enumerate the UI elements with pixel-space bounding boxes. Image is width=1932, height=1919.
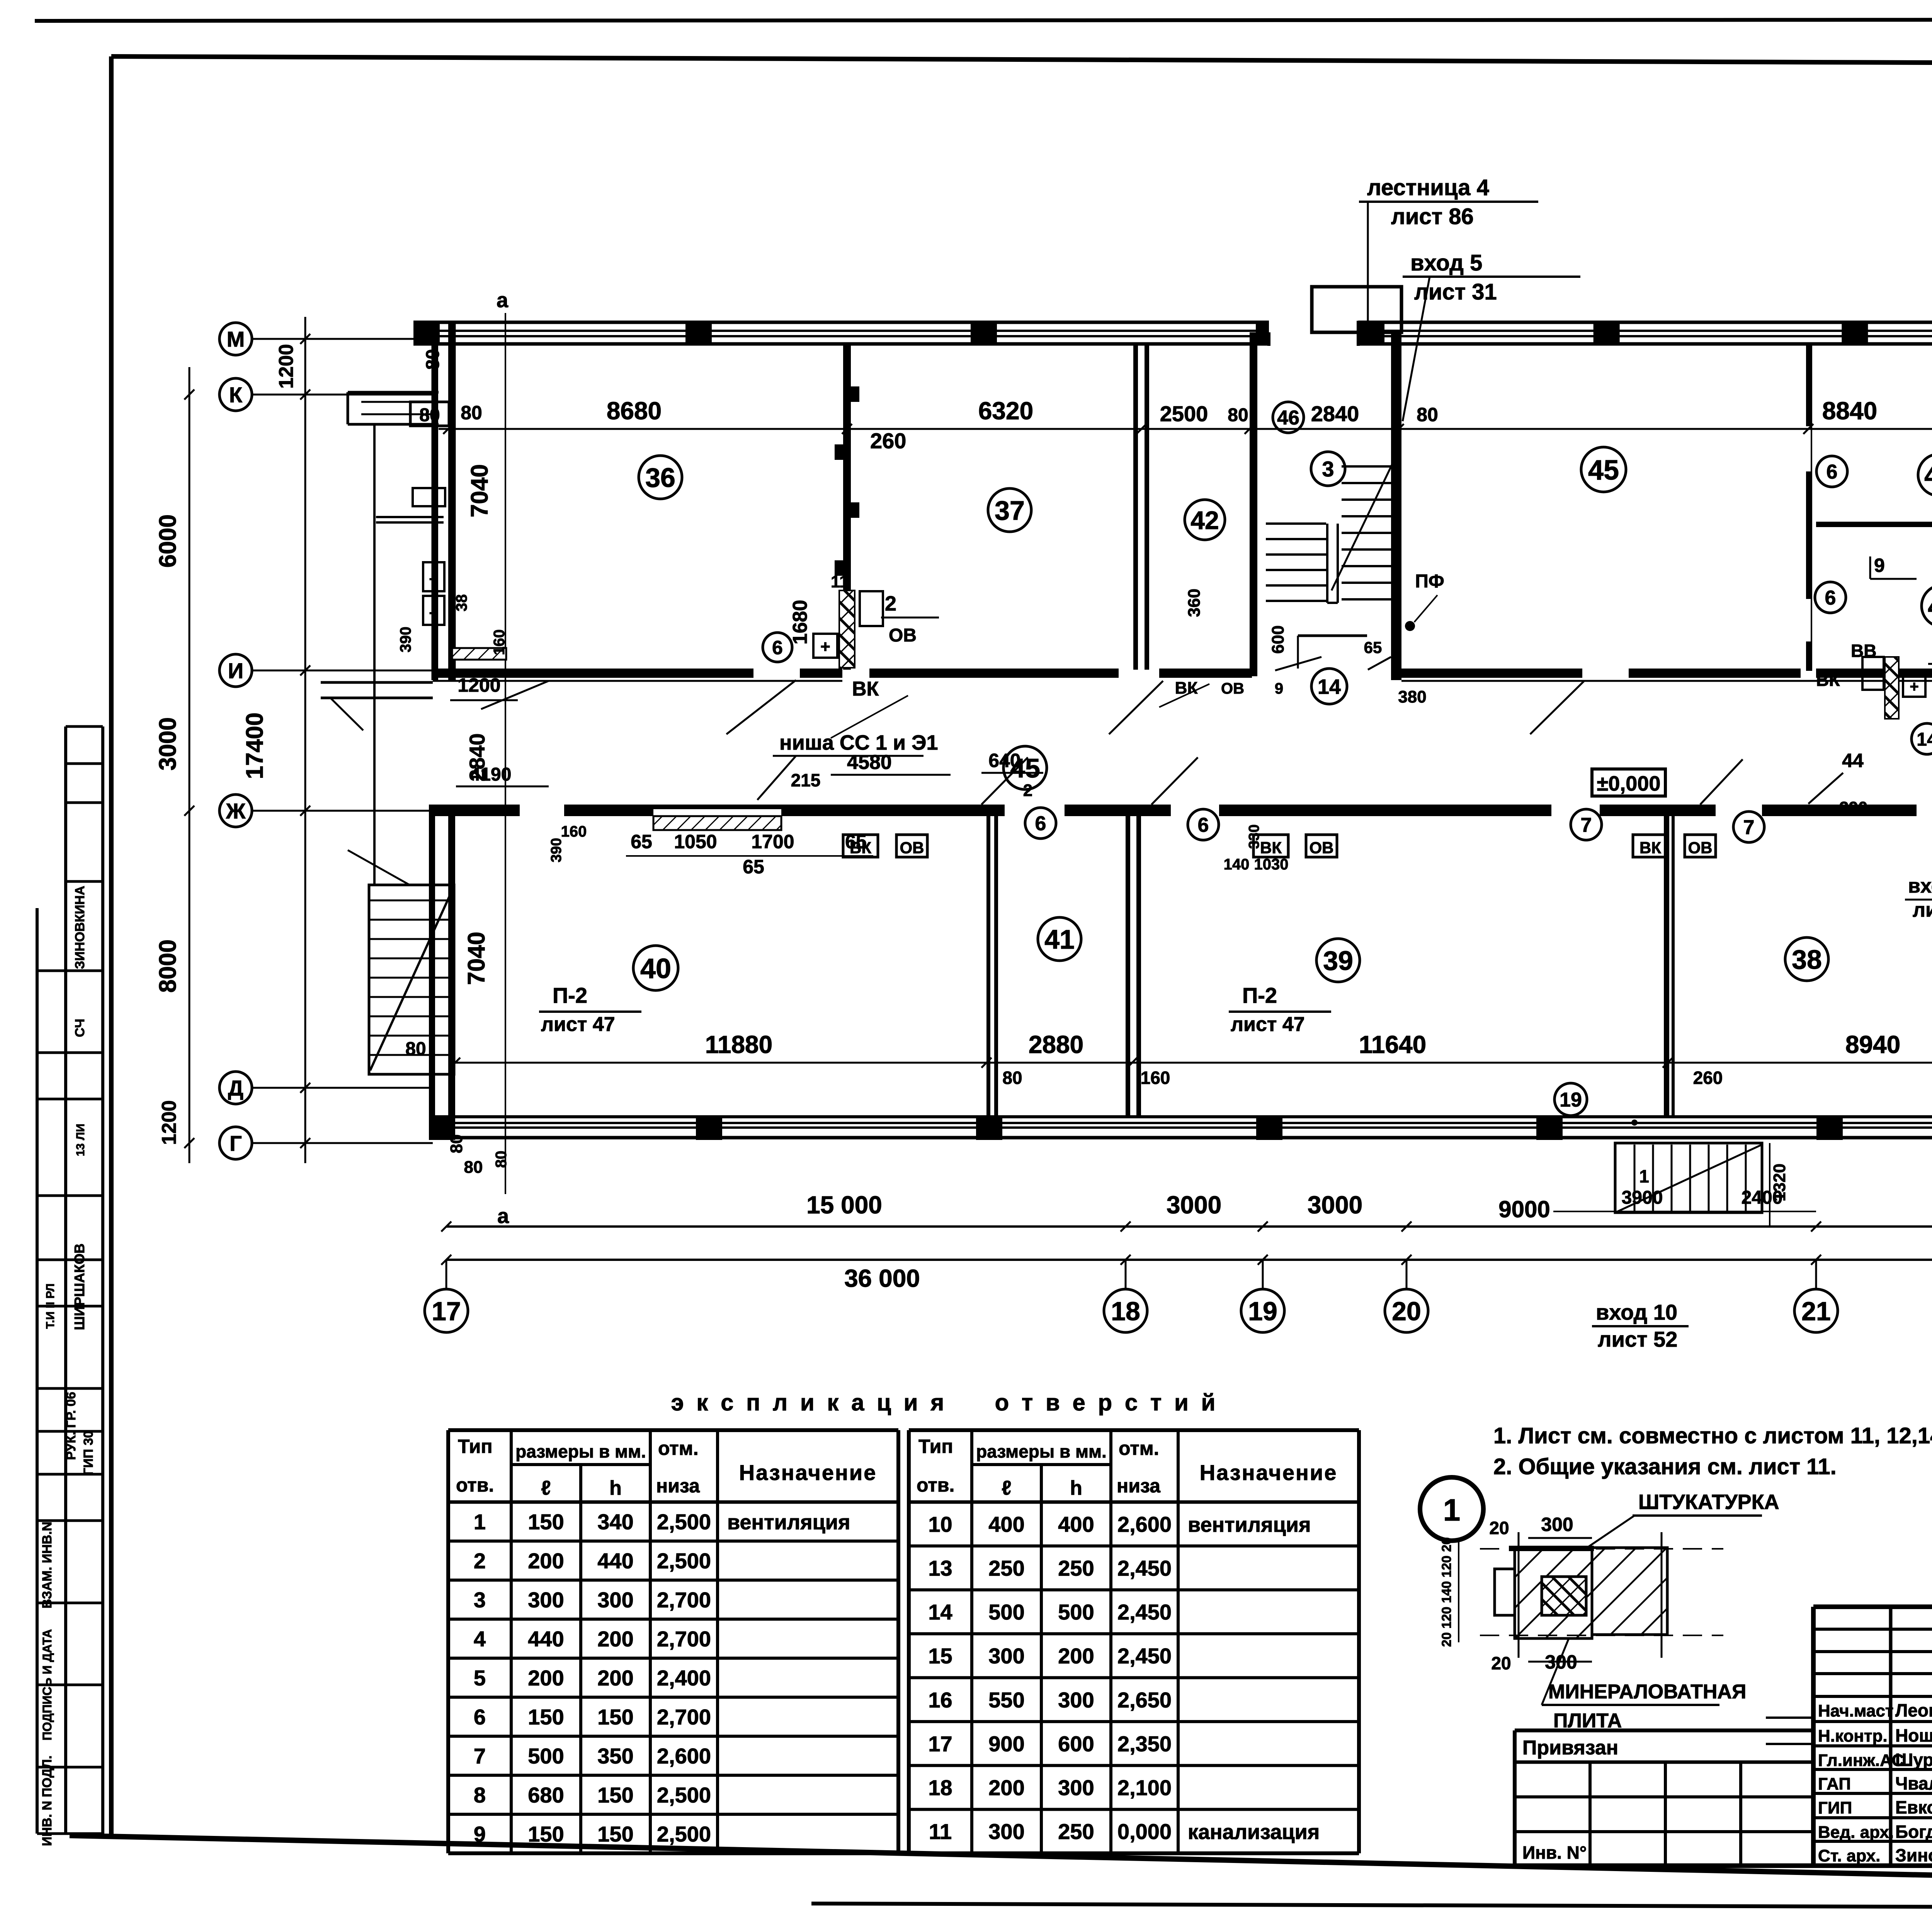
svg-text:11880: 11880 <box>705 1031 772 1058</box>
svg-text:+: + <box>429 571 438 588</box>
svg-text:20: 20 <box>1392 1296 1421 1326</box>
svg-text:680: 680 <box>528 1783 564 1807</box>
svg-text:лист 52: лист 52 <box>1598 1327 1677 1351</box>
svg-text:13: 13 <box>928 1556 952 1580</box>
svg-text:Шурмухина: Шурмухина <box>1895 1750 1932 1770</box>
svg-text:РУК. ГР. 06: РУК. ГР. 06 <box>64 1392 78 1460</box>
svg-text:2,450: 2,450 <box>1117 1644 1172 1668</box>
svg-text:2880: 2880 <box>1029 1031 1083 1058</box>
svg-text:150: 150 <box>528 1510 564 1534</box>
svg-text:вход 8I1: вход 8I1 <box>1908 875 1932 897</box>
svg-text:18: 18 <box>928 1776 952 1800</box>
svg-text:37: 37 <box>995 495 1025 526</box>
svg-text:340: 340 <box>597 1510 633 1534</box>
svg-text:17400: 17400 <box>241 713 268 779</box>
svg-text:215: 215 <box>791 770 821 790</box>
svg-text:150: 150 <box>528 1705 564 1729</box>
svg-text:150: 150 <box>597 1783 633 1807</box>
svg-text:ГИП: ГИП <box>1818 1798 1852 1817</box>
svg-text:6: 6 <box>1035 813 1046 835</box>
svg-text:вентиляция: вентиляция <box>727 1511 850 1534</box>
svg-text:ℓ: ℓ <box>541 1477 551 1499</box>
svg-text:80: 80 <box>1228 405 1248 425</box>
svg-text:500: 500 <box>1058 1600 1094 1624</box>
svg-text:2,700: 2,700 <box>657 1627 711 1651</box>
svg-text:2: 2 <box>885 592 896 615</box>
svg-text:640: 640 <box>988 750 1020 771</box>
svg-text:400: 400 <box>1058 1512 1094 1536</box>
svg-text:6: 6 <box>1827 461 1838 483</box>
svg-text:65: 65 <box>1364 638 1382 657</box>
svg-text:150: 150 <box>528 1822 564 1846</box>
svg-text:8000: 8000 <box>155 939 181 993</box>
svg-text:300: 300 <box>1058 1776 1094 1800</box>
svg-text:вход 5: вход 5 <box>1410 250 1482 276</box>
svg-text:2500: 2500 <box>1160 401 1208 426</box>
svg-text:2,600: 2,600 <box>1117 1512 1172 1536</box>
svg-text:39: 39 <box>1323 946 1353 976</box>
svg-text:390: 390 <box>548 838 565 862</box>
svg-text:Д: Д <box>228 1076 243 1100</box>
svg-text:ШТУКАТУРКА: ШТУКАТУРКА <box>1638 1490 1779 1514</box>
svg-text:13 ЛИ: 13 ЛИ <box>74 1124 87 1156</box>
svg-text:900: 900 <box>988 1732 1024 1756</box>
svg-text:ниша СС 1 и Э1: ниша СС 1 и Э1 <box>779 731 938 754</box>
svg-text:5: 5 <box>474 1666 486 1690</box>
svg-text:отв.: отв. <box>456 1474 494 1496</box>
svg-text:2,350: 2,350 <box>1117 1732 1172 1756</box>
svg-text:6320: 6320 <box>978 397 1033 425</box>
svg-text:7: 7 <box>1743 817 1755 839</box>
svg-text:ПОДПИСЬ И ДАТА: ПОДПИСЬ И ДАТА <box>40 1629 54 1740</box>
svg-text:1200: 1200 <box>275 344 298 389</box>
svg-text:Тип: Тип <box>918 1436 953 1457</box>
svg-text:ВК: ВК <box>1816 670 1840 690</box>
svg-text:9: 9 <box>1874 555 1885 576</box>
svg-text:6: 6 <box>1825 587 1836 609</box>
svg-text:350: 350 <box>597 1744 633 1768</box>
svg-text:ШИРШАКОВ: ШИРШАКОВ <box>71 1244 87 1330</box>
svg-text:300: 300 <box>988 1644 1024 1668</box>
svg-text:36 000: 36 000 <box>844 1264 920 1292</box>
svg-text:2,450: 2,450 <box>1117 1600 1172 1624</box>
svg-text:Г: Г <box>230 1131 242 1155</box>
svg-text:300: 300 <box>1058 1688 1094 1712</box>
svg-text:П-2: П-2 <box>1242 983 1277 1007</box>
svg-text:размеры в мм.: размеры в мм. <box>515 1441 646 1461</box>
svg-text:80: 80 <box>405 1039 426 1059</box>
svg-text:+: + <box>1910 678 1918 695</box>
svg-text:38: 38 <box>453 594 470 612</box>
svg-text:2,700: 2,700 <box>657 1588 711 1612</box>
svg-text:550: 550 <box>988 1688 1024 1712</box>
svg-text:1030: 1030 <box>1254 856 1289 873</box>
svg-text:11: 11 <box>831 572 849 591</box>
svg-text:260: 260 <box>870 429 906 453</box>
svg-text:8: 8 <box>474 1783 486 1807</box>
svg-text:19: 19 <box>1560 1089 1582 1111</box>
svg-text:200: 200 <box>528 1666 564 1690</box>
svg-text:Назначение: Назначение <box>1200 1460 1338 1485</box>
svg-text:лист 47: лист 47 <box>541 1013 615 1036</box>
svg-text:2,400: 2,400 <box>657 1666 711 1690</box>
svg-text:3: 3 <box>474 1588 486 1612</box>
svg-text:36: 36 <box>645 463 675 493</box>
svg-text:18: 18 <box>1111 1296 1140 1326</box>
svg-text:М: М <box>227 327 245 351</box>
svg-text:9000: 9000 <box>1498 1196 1550 1222</box>
svg-text:200: 200 <box>528 1549 564 1573</box>
svg-text:140: 140 <box>1224 856 1250 873</box>
svg-text:Ношина: Ношина <box>1895 1725 1932 1745</box>
svg-text:ВЗАМ. ИНВ.N: ВЗАМ. ИНВ.N <box>40 1522 54 1609</box>
svg-text:лист 2.: лист 2. <box>1913 899 1932 921</box>
svg-text:19: 19 <box>1248 1296 1277 1326</box>
svg-text:вход 10: вход 10 <box>1596 1300 1677 1324</box>
svg-text:3: 3 <box>1322 457 1334 481</box>
svg-text:15: 15 <box>928 1644 952 1668</box>
svg-text:7040: 7040 <box>463 932 490 985</box>
svg-text:80: 80 <box>423 349 443 369</box>
svg-text:40: 40 <box>640 953 671 984</box>
svg-text:43: 43 <box>1924 461 1932 490</box>
svg-text:200: 200 <box>597 1627 633 1651</box>
svg-text:80: 80 <box>447 1135 466 1153</box>
svg-text:46: 46 <box>1277 407 1299 429</box>
svg-text:Гл.инж.АС: Гл.инж.АС <box>1818 1751 1904 1770</box>
svg-text:1700: 1700 <box>751 831 794 852</box>
svg-text:1: 1 <box>1639 1166 1649 1186</box>
svg-text:отв.: отв. <box>917 1474 954 1496</box>
svg-text:7: 7 <box>474 1744 486 1768</box>
svg-text:3000: 3000 <box>155 717 181 771</box>
svg-text:330: 330 <box>1246 824 1262 849</box>
svg-text:вентиляция: вентиляция <box>1188 1513 1311 1536</box>
svg-text:h: h <box>609 1477 622 1499</box>
svg-text:250: 250 <box>1058 1556 1094 1580</box>
svg-text:ℓ: ℓ <box>1002 1477 1011 1499</box>
svg-text:44: 44 <box>1842 750 1864 771</box>
svg-text:лист 47: лист 47 <box>1231 1013 1305 1036</box>
svg-text:260: 260 <box>1693 1068 1723 1088</box>
svg-text:150: 150 <box>597 1822 633 1846</box>
svg-text:лист 86: лист 86 <box>1391 204 1474 229</box>
svg-text:200: 200 <box>988 1776 1024 1800</box>
svg-text:ВК: ВК <box>1639 839 1661 857</box>
svg-text:6: 6 <box>1198 814 1209 837</box>
svg-text:2840: 2840 <box>1311 401 1359 426</box>
svg-text:6000: 6000 <box>155 514 181 568</box>
svg-text:Ж: Ж <box>226 799 246 823</box>
svg-text:2,500: 2,500 <box>657 1510 711 1534</box>
svg-text:1200: 1200 <box>158 1100 180 1145</box>
svg-text:1. Лист см. совместно с листом: 1. Лист см. совместно с листом 11, 12,14… <box>1493 1423 1932 1448</box>
svg-text:300: 300 <box>597 1588 633 1612</box>
svg-text:14: 14 <box>1318 675 1341 698</box>
svg-text:ИНВ. N ПОДЛ.: ИНВ. N ПОДЛ. <box>40 1756 54 1846</box>
svg-text:7040: 7040 <box>466 464 493 517</box>
svg-text:2: 2 <box>1023 781 1032 800</box>
svg-text:20: 20 <box>1491 1653 1511 1673</box>
svg-text:300: 300 <box>988 1819 1024 1844</box>
svg-text:11640: 11640 <box>1359 1031 1426 1058</box>
svg-text:1200: 1200 <box>457 674 500 696</box>
svg-text:9: 9 <box>1275 680 1283 697</box>
svg-text:Леонов: Леонов <box>1895 1700 1932 1720</box>
svg-text:600: 600 <box>1058 1732 1094 1756</box>
svg-text:8940: 8940 <box>1845 1031 1900 1058</box>
svg-text:14: 14 <box>928 1600 952 1624</box>
svg-text:Привязан: Привязан <box>1522 1737 1618 1759</box>
svg-text:ОВ: ОВ <box>1688 839 1713 857</box>
svg-text:65: 65 <box>631 831 652 852</box>
svg-text:И: И <box>228 658 243 683</box>
svg-text:400: 400 <box>988 1512 1024 1536</box>
svg-text:150: 150 <box>597 1705 633 1729</box>
svg-text:2,700: 2,700 <box>657 1705 711 1729</box>
svg-text:2,450: 2,450 <box>1117 1556 1172 1580</box>
svg-text:14: 14 <box>1917 729 1932 750</box>
svg-text:низа: низа <box>1117 1475 1161 1497</box>
svg-text:160: 160 <box>561 823 587 840</box>
svg-text:+: + <box>429 605 438 622</box>
svg-text:42: 42 <box>1190 506 1219 534</box>
svg-text:2: 2 <box>474 1549 486 1573</box>
svg-text:2,500: 2,500 <box>657 1783 711 1807</box>
svg-text:ГАП: ГАП <box>1818 1774 1851 1793</box>
svg-text:2400: 2400 <box>1742 1187 1783 1208</box>
svg-text:200: 200 <box>597 1666 633 1690</box>
svg-text:Тип: Тип <box>458 1436 493 1457</box>
svg-text:38: 38 <box>1792 944 1822 975</box>
svg-text:390: 390 <box>397 627 414 653</box>
svg-text:500: 500 <box>988 1600 1024 1624</box>
svg-text:250: 250 <box>988 1556 1024 1580</box>
svg-text:±0,000: ±0,000 <box>1597 772 1661 795</box>
svg-text:2,600: 2,600 <box>657 1744 711 1768</box>
svg-text:Чвалун: Чвалун <box>1895 1773 1932 1793</box>
svg-text:10: 10 <box>928 1512 952 1536</box>
svg-text:Вед. арх.: Вед. арх. <box>1818 1823 1894 1842</box>
svg-text:4190: 4190 <box>470 764 512 785</box>
svg-text:300: 300 <box>528 1588 564 1612</box>
svg-text:440: 440 <box>528 1627 564 1651</box>
svg-text:440: 440 <box>597 1549 633 1573</box>
svg-text:1: 1 <box>1443 1493 1461 1527</box>
svg-text:80: 80 <box>464 1158 483 1177</box>
svg-text:Инв. N°: Инв. N° <box>1522 1842 1587 1863</box>
svg-text:3000: 3000 <box>1308 1191 1362 1219</box>
svg-text:4580: 4580 <box>847 751 892 774</box>
svg-text:20 120 140 120 20: 20 120 140 120 20 <box>1439 1537 1454 1647</box>
svg-text:7: 7 <box>1581 814 1592 837</box>
svg-text:а: а <box>497 289 509 312</box>
svg-text:Зиновкина: Зиновкина <box>1895 1845 1932 1865</box>
svg-text:250: 250 <box>1058 1819 1094 1844</box>
svg-text:СЧ: СЧ <box>73 1019 87 1037</box>
svg-text:2,100: 2,100 <box>1117 1776 1172 1800</box>
svg-text:200: 200 <box>1058 1644 1094 1668</box>
svg-text:Назначение: Назначение <box>739 1460 877 1485</box>
svg-text:ВК: ВК <box>1260 839 1282 857</box>
svg-text:ОВ: ОВ <box>1221 680 1244 697</box>
svg-text:20: 20 <box>1489 1518 1509 1538</box>
svg-text:ОВ: ОВ <box>900 839 924 857</box>
svg-text:канализация: канализация <box>1188 1820 1320 1844</box>
svg-text:15 000: 15 000 <box>806 1191 882 1219</box>
svg-text:Богданова: Богданова <box>1895 1822 1932 1842</box>
svg-text:16: 16 <box>928 1688 952 1712</box>
svg-text:44: 44 <box>1928 592 1932 621</box>
svg-text:а: а <box>497 1204 509 1228</box>
svg-text:45: 45 <box>1588 455 1619 486</box>
svg-text:3900: 3900 <box>1622 1187 1663 1208</box>
svg-text:ВК: ВК <box>852 678 879 700</box>
svg-text:17: 17 <box>928 1732 952 1756</box>
svg-text:К: К <box>229 383 243 407</box>
svg-text:41: 41 <box>1044 924 1075 954</box>
svg-text:300: 300 <box>1541 1514 1573 1535</box>
svg-text:Евко: Евко <box>1895 1797 1932 1817</box>
svg-text:160: 160 <box>491 629 508 655</box>
svg-text:80: 80 <box>493 1151 510 1168</box>
svg-text:8840: 8840 <box>1822 397 1877 425</box>
svg-text:ЗИНОВКИНА: ЗИНОВКИНА <box>73 886 87 969</box>
svg-text:э к с п л и к а ц и я о т: э к с п л и к а ц и я о т в е р с т и й <box>671 1390 1219 1415</box>
svg-text:0,000: 0,000 <box>1117 1819 1172 1844</box>
svg-text:4: 4 <box>474 1627 486 1651</box>
svg-text:ГИП 30: ГИП 30 <box>81 1431 96 1475</box>
svg-text:ПФ: ПФ <box>1415 571 1444 592</box>
svg-text:11: 11 <box>929 1819 952 1844</box>
svg-text:ОВ: ОВ <box>889 625 917 646</box>
svg-text:390: 390 <box>1839 798 1867 817</box>
svg-text:2. Общие указания см. лист: 2. Общие указания см. лист 11. <box>1493 1454 1837 1479</box>
svg-text:лестница 4: лестница 4 <box>1367 175 1489 200</box>
svg-text:80: 80 <box>1417 404 1438 425</box>
svg-text:80: 80 <box>1002 1068 1022 1088</box>
svg-text:Т.И II РЛ: Т.И II РЛ <box>44 1283 57 1329</box>
svg-text:1680: 1680 <box>789 600 811 645</box>
svg-text:низа: низа <box>656 1475 700 1497</box>
svg-text:160: 160 <box>1141 1068 1170 1088</box>
svg-text:21: 21 <box>1801 1296 1831 1326</box>
svg-text:ОВ: ОВ <box>1310 839 1334 857</box>
svg-text:МИНЕРАЛОВАТНАЯ: МИНЕРАЛОВАТНАЯ <box>1548 1681 1746 1703</box>
svg-text:h: h <box>1070 1477 1082 1499</box>
svg-text:1: 1 <box>474 1510 486 1534</box>
svg-text:65: 65 <box>743 856 764 878</box>
svg-text:Нач.маст: Нач.маст <box>1818 1701 1893 1720</box>
svg-text:отм.: отм. <box>1119 1438 1159 1459</box>
svg-text:17: 17 <box>432 1296 461 1326</box>
svg-text:6: 6 <box>772 637 783 658</box>
svg-text:9: 9 <box>474 1822 486 1846</box>
svg-text:8680: 8680 <box>607 397 662 425</box>
svg-text:ВК: ВК <box>850 839 871 857</box>
svg-text:Ст. арх.: Ст. арх. <box>1818 1846 1880 1865</box>
svg-text:3000: 3000 <box>1167 1191 1221 1219</box>
svg-text:2,500: 2,500 <box>657 1549 711 1573</box>
svg-text:Н.контр.: Н.контр. <box>1818 1727 1888 1745</box>
svg-text:отм.: отм. <box>658 1438 699 1459</box>
svg-text:П-2: П-2 <box>553 983 587 1007</box>
svg-text:80: 80 <box>461 402 482 424</box>
svg-text:600: 600 <box>1269 625 1287 653</box>
svg-text:+: + <box>820 637 830 656</box>
svg-text:380: 380 <box>1398 687 1426 706</box>
svg-text:2,650: 2,650 <box>1117 1688 1172 1712</box>
svg-text:500: 500 <box>528 1744 564 1768</box>
svg-text:6: 6 <box>474 1705 486 1729</box>
svg-text:размеры в мм.: размеры в мм. <box>976 1441 1107 1461</box>
svg-text:360: 360 <box>1185 589 1204 617</box>
svg-text:1050: 1050 <box>674 831 717 852</box>
svg-text:2,500: 2,500 <box>657 1822 711 1846</box>
